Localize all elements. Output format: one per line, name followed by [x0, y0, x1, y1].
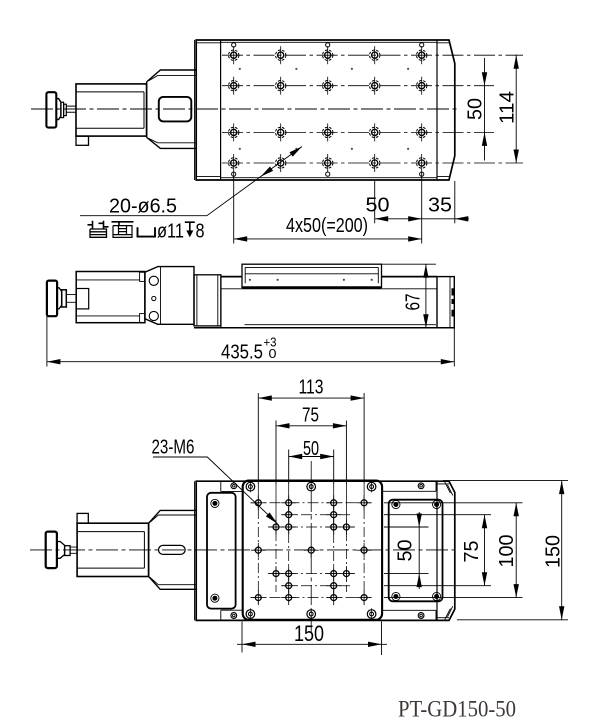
centerline main axis top view [31, 108, 459, 110]
inset line top left plate [196, 42, 449, 44]
plate screws [246, 481, 255, 493]
depth symbol [185, 222, 195, 231]
vertical axis c4 [310, 461, 312, 632]
right end cap vertical [436, 40, 438, 180]
coupling block A [145, 267, 194, 325]
svg-text:50: 50 [303, 438, 319, 460]
dim 67 [382, 263, 436, 265]
hole pattern centerlines [251, 484, 372, 604]
dim 50 inner [384, 512, 429, 589]
svg-text:75: 75 [302, 404, 319, 426]
collars [61, 102, 64, 117]
svg-text:PT-GD150-50: PT-GD150-50 [398, 697, 516, 722]
motor body top view [46, 70, 196, 148]
motor assembly bottom view [46, 510, 197, 589]
row centerline 3 [222, 131, 494, 133]
23 M6 holes [251, 495, 372, 605]
svg-text:113: 113 [299, 377, 324, 399]
bearing section B [194, 275, 221, 326]
dim 50 right (rows 2-3) [484, 58, 486, 161]
coupling housing [147, 70, 197, 148]
dim 35 [455, 216, 469, 221]
small edge circles [232, 43, 424, 176]
housing trapezoid [149, 510, 197, 589]
dim 75 [384, 515, 491, 586]
svg-text:75: 75 [461, 541, 483, 563]
svg-text:114: 114 [497, 91, 519, 124]
moving table plate [242, 264, 382, 287]
dim 100 [384, 503, 523, 598]
row centerline 2 [222, 85, 494, 87]
handwheel [46, 92, 56, 127]
dim 435.5 +3/0 [46, 316, 48, 366]
motor foot [76, 136, 89, 145]
svg-text:435.5: 435.5 [221, 342, 263, 364]
left end plate vertical [220, 40, 222, 180]
svg-text:0: 0 [269, 346, 277, 361]
motor side view [76, 272, 145, 323]
svg-text:ø11: ø11 [157, 221, 184, 243]
right cover plate [389, 500, 443, 602]
handwheel [46, 532, 57, 569]
coupling window [159, 97, 192, 122]
base edge screws [231, 483, 237, 489]
dim 4x50(=200) [234, 238, 422, 240]
row centerline 4 [222, 162, 523, 164]
glyph mian [112, 222, 134, 226]
row centerline 1 [222, 54, 523, 56]
rail body [221, 276, 437, 278]
svg-text:20-ø6.5: 20-ø6.5 [109, 196, 177, 218]
notch boxes left region [221, 481, 243, 620]
tiny pin dots [239, 68, 410, 150]
svg-text:100: 100 [496, 535, 518, 568]
glyph bei [88, 221, 109, 229]
svg-text:150: 150 [543, 535, 565, 568]
svg-text:50: 50 [465, 98, 487, 120]
base outline [196, 481, 455, 620]
cover screws dark [211, 499, 219, 507]
svg-text:50: 50 [395, 540, 417, 562]
top stacked dims 113 75 50 extension lines [258, 393, 364, 484]
svg-text:35: 35 [428, 195, 452, 217]
bottom dims extension lines [234, 172, 455, 244]
wheel hub [56, 99, 61, 120]
svg-text:67: 67 [402, 294, 424, 311]
svg-text:8: 8 [196, 221, 205, 243]
svg-text:23-M6: 23-M6 [152, 436, 195, 458]
label line2: mian + counterbore o11 depth 8 [88, 221, 156, 238]
main axis bottom view [30, 549, 459, 551]
svg-text:4x50(=200): 4x50(=200) [286, 215, 368, 237]
dim 150 right [443, 481, 568, 620]
inset line bottom [196, 176, 449, 178]
dim 50 (col4-col5) [375, 218, 469, 220]
oval slot [159, 545, 186, 554]
top/bottom strips right region [382, 481, 437, 620]
table plate 150x150 [243, 481, 382, 620]
counterbore symbol [138, 227, 156, 236]
end cap [437, 277, 454, 328]
dim 150 bottom [237, 622, 387, 656]
end cap vertical [436, 481, 438, 620]
shaft [66, 106, 76, 112]
dim 114 right (rows 1-4) [515, 55, 517, 163]
left cover plate [207, 493, 236, 609]
handwheel side [47, 281, 57, 317]
table bottom inner line [221, 177, 437, 179]
svg-text:150: 150 [294, 621, 324, 646]
base body outline [196, 40, 455, 180]
20x counterbored holes grid 5x4 [229, 46, 427, 172]
svg-text:50: 50 [366, 195, 390, 217]
